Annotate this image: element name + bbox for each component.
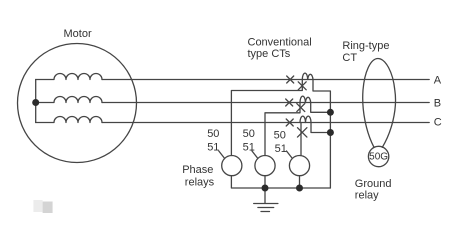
winding (motor phase A)	[36, 74, 102, 80]
relay 50/51 phase C	[289, 156, 309, 176]
wire (phase line B)	[102, 102, 429, 104]
svg-text:51: 51	[275, 143, 287, 155]
svg-text:50: 50	[274, 130, 286, 142]
watermark remnant	[33, 200, 42, 212]
node (CT B return junction)	[327, 109, 334, 116]
motor M1	[18, 44, 137, 163]
wire (relay 2 bottom)	[264, 176, 266, 188]
svg-text:Ground: Ground	[355, 178, 392, 190]
node (relay 3 ground bus junction)	[296, 185, 303, 192]
wire (CT A secondary left lead to relay 1)	[231, 80, 302, 156]
wire (relay 1 bottom to ground bus)	[231, 176, 330, 188]
wire (CT B secondary right lead)	[311, 103, 331, 113]
CT U1 secondary winding (phase A)	[302, 73, 313, 79]
node (CT C return junction)	[327, 129, 334, 136]
CT A secondary polarity mark	[298, 82, 306, 90]
ring-type CT T1	[363, 59, 396, 148]
svg-text:50: 50	[207, 128, 219, 140]
winding (motor phase C)	[36, 117, 102, 123]
relay 50/51 phase A	[222, 156, 242, 176]
node (motor neutral junction)	[32, 99, 39, 106]
svg-text:Phase: Phase	[182, 164, 213, 176]
wire (phase line A)	[102, 79, 429, 81]
ground relay 50G	[368, 146, 388, 166]
wire (motor neutral bus)	[35, 80, 37, 123]
svg-text:relay: relay	[355, 190, 379, 202]
CT primary polarity mark (phase A)	[287, 76, 294, 83]
wire (relay 3 bottom)	[299, 176, 301, 188]
wire (CT B secondary left lead to relay 2)	[265, 103, 300, 156]
svg-text:50G: 50G	[369, 152, 388, 163]
ground	[254, 188, 278, 212]
svg-text:Ring-type: Ring-type	[342, 40, 389, 52]
svg-text:A: A	[434, 74, 442, 86]
wire (phase line C)	[102, 122, 429, 124]
CT B secondary polarity mark	[297, 104, 305, 112]
relay 50/51 phase B	[255, 156, 275, 176]
wire (CT C secondary right lead)	[311, 123, 330, 133]
leader line (51 label to relay 3)	[287, 151, 293, 158]
svg-text:50: 50	[243, 128, 255, 140]
winding (motor phase B)	[36, 97, 102, 103]
node (relay 2 ground bus junction)	[262, 185, 269, 192]
svg-text:51: 51	[243, 142, 255, 154]
CT C secondary polarity mark	[298, 128, 307, 137]
CT U2 secondary winding (phase B)	[300, 96, 311, 102]
svg-text:relays: relays	[185, 177, 215, 189]
wire (CT A secondary right lead + common return)	[313, 80, 330, 189]
CT primary polarity mark (phase B)	[286, 99, 293, 106]
CT U3 secondary winding (phase C)	[300, 116, 311, 122]
CT primary polarity mark (phase C)	[286, 119, 293, 126]
svg-text:B: B	[434, 97, 441, 109]
svg-text:51: 51	[207, 142, 219, 154]
leader line (51 label to relay 2)	[252, 151, 258, 158]
leader line (51 label to relay 1)	[219, 151, 225, 158]
svg-text:Conventional: Conventional	[248, 37, 312, 49]
svg-text:type CTs: type CTs	[248, 48, 291, 60]
wire (CT C secondary left lead to relay 3)	[300, 123, 302, 156]
svg-text:Motor: Motor	[64, 28, 92, 40]
svg-text:C: C	[434, 117, 442, 129]
svg-text:CT: CT	[342, 52, 357, 64]
